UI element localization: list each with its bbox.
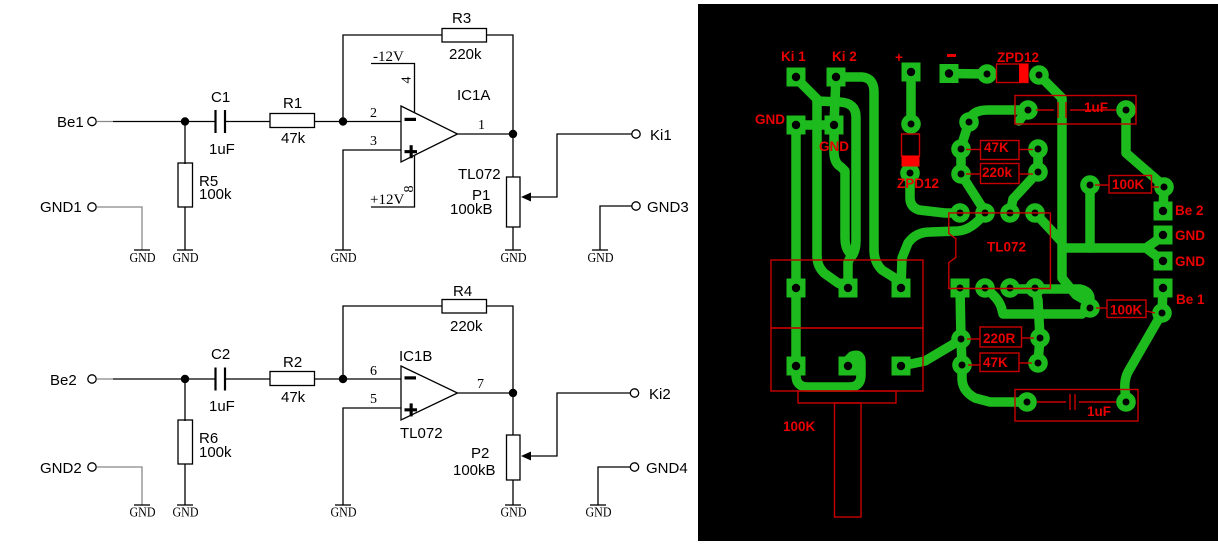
svg-text:220k: 220k [982,165,1013,180]
resistor R2 [270,354,315,406]
wire R6 to ground [184,464,186,505]
wire trace 100K bottom to 1uF bottom [1125,313,1162,402]
wire trace long vertical right of IC [1041,77,1090,308]
wire trace GND column to pot [791,125,801,366]
svg-text:Ki 2: Ki 2 [832,49,857,64]
op-amp IC1A [401,87,501,183]
svg-text:GND4: GND4 [646,460,688,477]
ground under P2 [501,505,527,520]
silkscreen: IC TL072 outline [949,213,1051,289]
svg-text:TL072: TL072 [458,166,501,183]
silkscreen: capacitor 1uF bottom [1015,390,1138,422]
silkscreen: resistor 47K bottom [968,353,1032,372]
wire trace 100K right to Be2 [1163,187,1164,211]
ground under P1 [501,250,527,265]
svg-text:4: 4 [400,77,415,84]
svg-text:GND: GND [173,250,199,265]
resistor R4 [442,283,487,335]
svg-text:GND: GND [755,112,785,127]
svg-text:Be 2: Be 2 [1175,203,1204,218]
svg-text:2: 2 [370,106,377,121]
silkscreen: resistor 100K bottom [1096,300,1155,318]
svg-text:1: 1 [478,118,485,133]
wire op-amp pin 5 to ground [343,408,401,505]
pad GND a [787,116,806,135]
pad 100K bottom left [1080,298,1100,318]
wire output to P1 [512,134,514,177]
svg-text:1uF: 1uF [209,398,235,415]
silkscreen: resistor 220R bottom [967,327,1034,347]
svg-text:Ki1: Ki1 [650,127,672,144]
svg-text:47K: 47K [984,140,1009,155]
wire trace GND pads pair [796,120,834,130]
pad plus [902,63,921,82]
pad 47K bottom left [952,355,972,375]
pad pot 2 [839,279,858,298]
wire Be1 to junction [113,121,185,123]
svg-text:GND: GND [1175,254,1205,269]
wire trace 1uF left pad stub [1019,111,1026,121]
power -12V label and pin 4 [371,49,415,113]
pad GND b [825,116,844,135]
svg-text:1uF: 1uF [209,141,235,158]
svg-text:100k: 100k [199,186,232,203]
wire C1 to R1 [225,121,270,123]
svg-text:Ki 1: Ki 1 [781,49,806,64]
ground under op-amp input [331,250,357,265]
wire trace IC pin4b to 220R right [1035,288,1040,363]
wire GND2 to ground [97,467,143,505]
svg-text:GND3: GND3 [647,199,689,216]
svg-text:8: 8 [402,186,417,193]
pad IC pins bottom [975,278,995,298]
svg-text:220k: 220k [450,318,483,335]
svg-text:+: + [895,50,903,65]
svg-text:GND: GND [1175,228,1205,243]
pad 1uF top left [1018,100,1038,120]
svg-text:P2: P2 [471,445,489,462]
svg-text:47k: 47k [281,389,306,406]
wire P1 to ground [512,227,514,250]
ground under GND2 [130,505,156,520]
wire trace IC pin4 join [1035,213,1060,240]
wire output to P2 [512,393,514,435]
capacitor C2 [209,346,235,415]
svg-text:7: 7 [477,377,484,392]
svg-text:ZPD12: ZPD12 [997,50,1039,65]
wire trace 47K-220k right link [1033,149,1043,172]
resistor R1 [270,95,315,147]
resistor R5 [178,163,232,207]
pad 220R right [1030,328,1050,348]
svg-text:Ki2: Ki2 [649,386,671,403]
node Be2 terminal [50,372,96,389]
silkscreen: zener ZPD12 vertical [902,134,920,167]
silkscreen: zener ZPD12 horizontal [997,64,1029,83]
svg-text:Be1: Be1 [57,114,84,131]
svg-text:GND: GND [588,250,614,265]
wire trace 1uF top left chain [961,110,1028,210]
potentiometer P2 [453,393,631,480]
resistor R6 [178,420,232,464]
svg-text:GND: GND [331,250,357,265]
pad IC pins top [975,203,995,223]
wire trace pot to 220R left diag [901,339,962,366]
node junction J1 [181,117,189,125]
pad zener bottom [900,163,920,183]
wire trace IC pin1b to 220R-47K left [960,288,962,365]
wire trace branch from Ki1 vertical to pot wiper [817,101,856,288]
svg-text:Be2: Be2 [50,372,77,389]
ground under GND3 [588,250,614,265]
wire trace zener to IC pin1 [910,173,960,213]
svg-text:GND1: GND1 [40,199,82,216]
node Be1 terminal [57,114,96,131]
svg-text:47k: 47k [281,130,306,147]
svg-text:GND: GND [331,505,357,520]
svg-text:R2: R2 [283,354,302,371]
pad pot 5 [839,357,858,376]
pad 220R left [951,329,971,349]
wire node B to op-amp pin 6 [343,378,401,380]
node GND3 terminal [632,199,689,216]
wire R5 to ground [184,207,186,250]
op-amp IC1B [399,348,458,442]
wire junction to C2 [185,378,215,380]
svg-text:GND: GND [819,139,849,154]
pad holes [792,68,1168,406]
pad Be2 [1154,202,1173,221]
wire trace 220k right to IC pin3 [1010,172,1038,213]
svg-text:47K: 47K [983,355,1008,370]
pad minus [940,64,959,83]
svg-text:100k: 100k [199,444,232,461]
wire node A to op-amp pin 2 [343,121,401,123]
svg-text:GND: GND [586,505,612,520]
pad IC pin1 square [951,279,970,298]
wire trace minus pad to diode [949,69,987,79]
svg-text:R3: R3 [452,10,471,27]
node B junction [339,375,347,383]
silkscreen: resistor 47K top [966,140,1033,160]
pad pot 4 [787,357,806,376]
wire GND3 to ground [600,206,632,250]
svg-text:1uF: 1uF [1084,100,1108,115]
wire GND1 to ground [97,207,143,250]
svg-text:TL072: TL072 [400,425,443,442]
svg-text:100K: 100K [1112,177,1145,192]
pad via plus [901,114,921,134]
svg-text:IC1B: IC1B [399,348,432,365]
resistor R3 [442,10,487,63]
wire P2 to ground [512,480,514,505]
svg-text:GND: GND [501,250,527,265]
pad 1uF top right [1116,100,1136,120]
pad GND c [1154,226,1173,245]
svg-text:100kB: 100kB [453,462,496,479]
pad via mid [959,112,979,132]
wire feedback up from node A [343,35,442,122]
svg-text:+12V: +12V [370,192,404,208]
node GND4 terminal [630,460,687,477]
wire trace IC pin2b across [985,288,1082,314]
pad pot 6 [892,357,911,376]
svg-text:GND2: GND2 [40,460,82,477]
label minus [947,54,956,57]
pad 47K top right [1028,139,1048,159]
pad IC pin 2 top [950,203,970,223]
svg-text:220R: 220R [983,331,1016,346]
svg-text:100kB: 100kB [450,201,493,218]
pad 100K top right [1154,177,1174,197]
wire junction down to R5 [184,122,186,165]
wire trace from GND pad b down [834,125,852,255]
wire trace plus pad to via [906,72,916,124]
svg-text:C1: C1 [211,89,230,106]
capacitor C1 [209,89,235,158]
ground under op-amp pin 5 [331,505,357,520]
silkscreen: resistor 100K top [1095,176,1159,194]
svg-text:100K: 100K [783,419,816,434]
pad 100K bottom right [1152,303,1172,323]
wire feedback up from node B [343,306,442,379]
wire trace Ki2 to GND pad [834,77,836,125]
silkscreen: capacitor 1uF top [1015,96,1136,125]
node Ki1 terminal [632,127,672,144]
pad pot 3 [892,279,911,298]
svg-text:GND: GND [130,505,156,520]
wire GND4 to ground [598,467,630,505]
pad Be1 [1154,279,1173,298]
svg-text:1uF: 1uF [1087,404,1111,419]
wire junction down to R6 [184,379,186,421]
svg-text:C2: C2 [211,346,230,363]
wire C2 to R2 [225,378,270,380]
silkscreen: resistor 220k top [966,164,1033,184]
svg-text:-12V: -12V [373,49,404,65]
pad 47K bottom right [1028,353,1048,373]
pad 1uF bottom left [1017,392,1037,412]
wire trace Ki2 to pot [836,77,901,288]
pad 100K top left [1080,175,1100,195]
wire trace pot U-turn [796,355,861,387]
wire R2 to node B [315,378,344,380]
ground under R6 [173,505,199,520]
pad 47K top left [951,139,971,159]
svg-text:6: 6 [370,364,377,379]
node Ki2 terminal [630,386,670,403]
pad 1uF bottom right [1116,392,1136,412]
wire trace Be1 to 100K bottom [1162,288,1163,313]
svg-text:TL072: TL072 [987,240,1026,255]
svg-text:GND: GND [501,505,527,520]
node output junction [509,130,517,138]
wire R4 to output node [487,306,514,393]
svg-text:R4: R4 [453,283,472,300]
wire trace 47K left to 1uF bottom [962,365,1027,402]
pad Ki1 [787,68,806,87]
wire trace Ki1 to pot wiper A [796,77,848,288]
PCB board background [698,4,1218,541]
pad Ki2 [827,68,846,87]
pad diode H right [1029,65,1049,85]
wire junction to C1 [185,121,215,123]
pad 220k top left [951,164,971,184]
ground under GND4 [586,505,612,520]
svg-text:3: 3 [370,134,377,149]
svg-text:Be 1: Be 1 [1176,292,1205,307]
wire trace IC pin2 to pot [901,213,985,288]
svg-text:GND: GND [130,250,156,265]
svg-text:ZPD12: ZPD12 [897,176,939,191]
svg-text:GND: GND [173,505,199,520]
wire output pin 1 [458,133,514,135]
svg-text:5: 5 [370,392,377,407]
wire R1 to node A [315,121,344,123]
node A junction (inverting input net) [339,117,347,125]
wire Be2 to junction [113,378,185,380]
node GND1 terminal [40,199,96,216]
ground under GND1 [130,250,156,265]
power +12V label and pin 8 [370,156,417,209]
wire trace GND pads merge [1064,236,1163,261]
svg-text:R1: R1 [283,95,302,112]
wire trace 100K left down to GND net [1085,185,1095,248]
potentiometer P1 [450,134,632,227]
svg-text:IC1A: IC1A [457,87,490,104]
wire Be1 stub (gray) [97,121,114,123]
ground under R5 [173,250,199,265]
pad GND d [1154,252,1173,271]
wire op-amp pin 3 (non-inverting) to ground [343,150,401,250]
svg-text:100K: 100K [1110,303,1143,318]
wire output pin 7 [458,392,514,394]
pad 220k top right [1028,162,1048,182]
wire trace 1uF right to 100K [1126,110,1164,186]
wire Be2 stub (gray) [97,378,114,380]
node output junction 2 [509,389,517,397]
svg-text:220k: 220k [449,46,482,63]
silkscreen: potentiometer 100K outline [771,260,923,517]
pad pot 1 [787,279,806,298]
node GND2 terminal [40,460,96,477]
wire R3 to output node [487,35,514,134]
node junction J2 [181,375,189,383]
pad diode H left [977,64,997,84]
wire trace IC pin3b to 100K bottom left [1010,288,1090,308]
